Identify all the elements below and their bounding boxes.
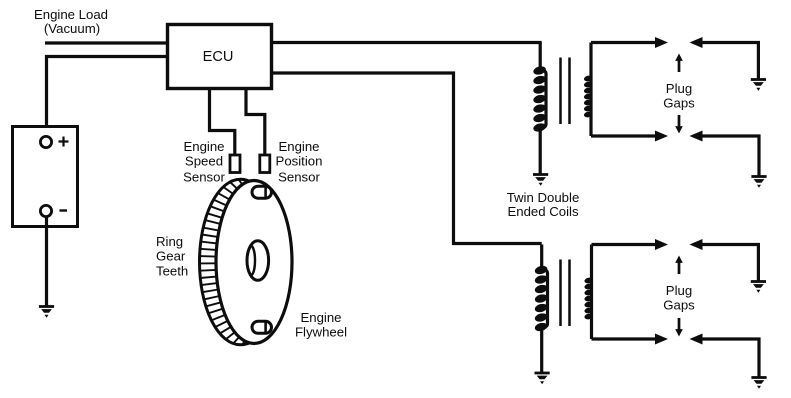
- plug gap arrow bottom-right (upper coil): [690, 131, 760, 177]
- flywheel hub hole: [247, 241, 269, 281]
- battery with + and - terminals: [13, 127, 78, 227]
- ground: upper coil primary: [533, 175, 548, 186]
- wire: ECU to lower coil primary: [272, 73, 542, 244]
- primary winding of upper coil: [532, 43, 546, 175]
- primary winding of lower coil: [534, 245, 548, 373]
- flywheel ring gear rim (back edge): [200, 179, 282, 345]
- svg-text:Engine: Engine: [300, 310, 341, 325]
- flywheel top slot: [252, 186, 272, 198]
- svg-text:Sensor: Sensor: [183, 170, 225, 185]
- plug gap arrow bottom-right (lower coil): [690, 334, 760, 378]
- transformer core of lower coil: [561, 260, 570, 327]
- flywheel front face: [216, 181, 292, 344]
- ground: upper coil bottom plug: [751, 177, 766, 188]
- wire: battery negative to ground: [45, 217, 48, 307]
- ground: lower coil primary: [535, 373, 550, 384]
- label: Engine Load (Vacuum): [34, 7, 108, 36]
- svg-text:Plug: Plug: [666, 81, 692, 96]
- svg-text:Engine Load: Engine Load: [34, 7, 108, 22]
- ground: lower coil top plug: [751, 282, 766, 293]
- svg-text:Gaps: Gaps: [663, 96, 695, 111]
- wire: ECU to engine position sensor: [246, 89, 265, 156]
- label: Plug Gaps (lower coil): [663, 283, 695, 313]
- transformer core of upper coil: [561, 58, 570, 125]
- label: Engine Speed Sensor: [183, 139, 225, 185]
- engine position sensor: [260, 155, 270, 173]
- label: Ring Gear Teeth: [156, 234, 188, 279]
- svg-text:Ended Coils: Ended Coils: [507, 204, 579, 219]
- svg-text:Sensor: Sensor: [278, 170, 320, 185]
- wire: ECU to engine speed sensor: [210, 89, 235, 156]
- svg-text:Teeth: Teeth: [156, 264, 188, 279]
- plug gap arrow top-right (upper coil): [690, 37, 759, 80]
- engine speed sensor: [230, 155, 240, 173]
- flywheel ring gear teeth hatching: [199, 179, 248, 345]
- ground: lower coil bottom plug: [751, 378, 766, 389]
- wire: lower coil secondary bottom output: [592, 337, 657, 340]
- svg-text:Engine: Engine: [183, 139, 224, 154]
- wire: ECU to upper coil primary: [272, 41, 542, 44]
- svg-text:(Vacuum): (Vacuum): [44, 21, 100, 36]
- svg-text:ECU: ECU: [203, 49, 234, 65]
- plug gap arrow bottom-left (upper coil): [655, 131, 668, 142]
- plug gap down arrow (upper coil): [675, 115, 683, 134]
- ground: upper coil top plug: [751, 80, 766, 91]
- label: ECU: [203, 49, 234, 65]
- svg-text:Gaps: Gaps: [663, 298, 695, 313]
- label: Engine Position Sensor: [276, 139, 323, 185]
- svg-text:Engine: Engine: [278, 139, 319, 154]
- svg-text:Flywheel: Flywheel: [295, 325, 347, 340]
- label: Engine Flywheel: [295, 310, 347, 340]
- plug gap up arrow (lower coil): [675, 256, 683, 275]
- ECU box: [168, 25, 272, 89]
- flywheel bottom slot: [252, 321, 272, 333]
- svg-text:Ring: Ring: [156, 234, 183, 249]
- ground: battery: [39, 307, 54, 318]
- plug gap up arrow (upper coil): [675, 54, 683, 73]
- svg-text:Speed: Speed: [185, 154, 223, 169]
- svg-text:Twin Double: Twin Double: [507, 190, 580, 205]
- wire: engine load input to ECU: [45, 41, 168, 44]
- secondary winding of lower coil: [584, 245, 594, 340]
- label: Plug Gaps (upper coil): [663, 81, 695, 111]
- secondary winding of upper coil: [583, 43, 593, 137]
- svg-text:Plug: Plug: [666, 283, 692, 298]
- wire: upper coil secondary bottom output: [591, 134, 657, 137]
- plug gap arrow bottom-left (lower coil): [655, 334, 668, 345]
- wire: battery positive feed to ECU: [47, 57, 168, 138]
- plug gap arrow top-left (lower coil): [655, 239, 668, 250]
- plug gap down arrow (lower coil): [675, 318, 683, 337]
- plug gap arrow top-right (lower coil): [690, 239, 759, 282]
- wire: lower coil secondary top output: [592, 243, 657, 246]
- label: Twin Double Ended Coils: [507, 190, 580, 219]
- svg-text:Position: Position: [276, 154, 323, 169]
- plug gap arrow top-left (upper coil): [655, 37, 668, 48]
- wire: upper coil secondary top output: [591, 41, 657, 44]
- svg-text:Gear: Gear: [156, 249, 186, 264]
